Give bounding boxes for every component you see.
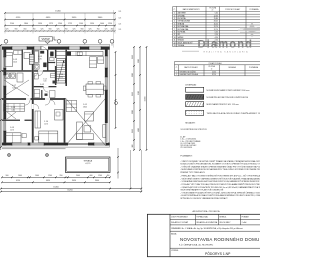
svg-text:IČO 40123456: IČO 40123456 <box>180 146 192 149</box>
room number labels <box>10 54 88 131</box>
svg-text:NOSNÉ MUROVANÉ STENY HRÚBKY 30: NOSNÉ MUROVANÉ STENY HRÚBKY 300 mm <box>207 89 250 92</box>
svg-text:S1 KONŠTRUKCIE STROPOV: S1 KONŠTRUKCIE STROPOV <box>181 128 208 131</box>
svg-text:12,70: 12,70 <box>44 123 48 125</box>
svg-text:1600: 1600 <box>18 175 22 177</box>
svg-text:525: 525 <box>41 29 44 31</box>
svg-text:- PREKLADY NAD OTVORMI SYSTÉMO: - PREKLADY NAD OTVORMI SYSTÉMOVÉ POROTHE… <box>180 175 260 178</box>
svg-text:12,70: 12,70 <box>214 29 218 31</box>
svg-text:525: 525 <box>89 29 92 31</box>
svg-text:- VÝŠKOVÉ OSADENIE STAVBY UPRE: - VÝŠKOVÉ OSADENIE STAVBY UPRESNÍ STAVEB… <box>180 165 260 168</box>
svg-text:ING.ARCH. A. KOVÁČOVÁ: ING.ARCH. A. KOVÁČOVÁ <box>197 221 219 224</box>
svg-text:525: 525 <box>105 29 108 31</box>
svg-text:ING.ARCH. P. KOVÁČ: ING.ARCH. P. KOVÁČ <box>171 221 189 224</box>
door swing arcs <box>25 71 50 109</box>
svg-text:525: 525 <box>6 29 9 31</box>
svg-text:PRESNÉ TYPY PREKLADOV: PRESNÉ TYPY PREKLADOV <box>180 171 205 174</box>
legend box insulation <box>186 110 266 115</box>
svg-text:28,45: 28,45 <box>83 106 87 108</box>
notes paragraph <box>180 154 270 199</box>
terrace sliding door bottom wall <box>68 142 88 145</box>
windows left wall <box>3 57 6 68</box>
dimension chain top overall <box>4 11 116 14</box>
svg-text:NÁZOV MIESTNOSTI: NÁZOV MIESTNOSTI <box>183 8 200 11</box>
svg-text:SPÔSOBILOU OSOBOU VRÁTANE REVÍ: SPÔSOBILOU OSOBOU VRÁTANE REVÍZNEJ SPRÁV… <box>180 197 228 200</box>
dimension chain right inner <box>115 51 118 129</box>
svg-text:28,45: 28,45 <box>214 21 218 23</box>
svg-text:4,20: 4,20 <box>11 109 14 111</box>
svg-text:TEPELNÁ IZOLÁCIA OBVODOVÉHO PL: TEPELNÁ IZOLÁCIA OBVODOVÉHO PLÁŠŤA HRÚBK… <box>207 112 261 115</box>
svg-text:1100: 1100 <box>79 23 83 25</box>
svg-text:Diamond: Diamond <box>198 39 254 51</box>
svg-text:1950: 1950 <box>90 23 94 25</box>
svg-text:87,20: 87,20 <box>212 74 216 76</box>
room schedule table <box>173 7 262 48</box>
svg-text:10: 10 <box>174 37 176 39</box>
svg-text:9: 9 <box>174 34 175 36</box>
svg-text:900: 900 <box>132 145 134 148</box>
svg-text:13: 13 <box>174 45 176 47</box>
svg-text:K.Ú. ČIERNA VODA, okr. HLOHOVE: K.Ú. ČIERNA VODA, okr. HLOHOVEC <box>179 244 214 247</box>
bathroom fixtures <box>34 50 47 69</box>
hall closet <box>29 54 34 65</box>
svg-text:1200: 1200 <box>58 23 62 25</box>
svg-text:1000: 1000 <box>100 23 104 25</box>
svg-text:STAVEBNÍK: Bc. J. SKALA a Bc.: STAVEBNÍK: Bc. J. SKALA a Bc. Ing. Sp. S… <box>171 227 243 230</box>
bedroom 2 furniture <box>35 110 63 143</box>
svg-text:900: 900 <box>81 29 84 31</box>
legend box concrete <box>186 95 249 100</box>
entrance label VSTUP <box>39 37 57 42</box>
svg-text:525: 525 <box>57 29 60 31</box>
living room furniture <box>66 101 105 140</box>
closet room shelving <box>4 104 25 120</box>
svg-text:- VYKUROVANIE PODLAHOVÉ TEPLOV: - VYKUROVANIE PODLAHOVÉ TEPLOVODNÉ, ZDRO… <box>180 191 260 194</box>
svg-text:900: 900 <box>15 29 18 31</box>
svg-text:- MUROVANÉ KONŠTRUKCIE SÚ NAVR: - MUROVANÉ KONŠTRUKCIE SÚ NAVRHNUTÉ Z TE… <box>180 168 260 171</box>
svg-text:2: 2 <box>174 15 175 17</box>
dimension chain bottom third <box>0 186 142 189</box>
windows bottom wall <box>12 142 28 145</box>
legend header <box>185 83 196 86</box>
dimension chain bottom fourth <box>0 148 142 192</box>
svg-text:8: 8 <box>174 32 175 34</box>
svg-text:2100: 2100 <box>10 23 14 25</box>
svg-text:650: 650 <box>24 29 27 31</box>
kitchen counter and appliances <box>56 51 103 68</box>
svg-text:6,35: 6,35 <box>215 32 218 34</box>
svg-text:8,40: 8,40 <box>43 81 46 83</box>
svg-text:4000: 4000 <box>138 128 140 132</box>
svg-text:2,10: 2,10 <box>50 56 53 58</box>
svg-text:- VNÚTORNÉ OMIETKY VÁPENNOCEME: - VNÚTORNÉ OMIETKY VÁPENNOCEMENTOVÉ ŠTUK… <box>180 178 260 181</box>
svg-text:900: 900 <box>49 29 52 31</box>
svg-text:1950: 1950 <box>132 129 134 133</box>
windows top wall <box>12 46 27 50</box>
porch overhang and columns <box>2 149 66 157</box>
svg-text:ING. M. BIELY: ING. M. BIELY <box>220 222 232 224</box>
svg-text:1: 1 <box>176 71 177 73</box>
svg-text:- VONKAJŠIA OMIETKA SILIKÁTOVÁ: - VONKAJŠIA OMIETKA SILIKÁTOVÁ TENKOVRST… <box>180 180 260 183</box>
svg-text:1: 1 <box>174 13 175 15</box>
dimension chain right second <box>138 46 141 151</box>
Diamond watermark logo <box>182 22 262 54</box>
dimension chain left <box>0 44 2 150</box>
svg-text:VNÚTORNÉ PARAPETY PLASTOVÉ KOM: VNÚTORNÉ PARAPETY PLASTOVÉ KOMôRKOVÉ <box>180 189 224 192</box>
svg-text:TERASA: TERASA <box>83 159 92 162</box>
svg-text:12,35: 12,35 <box>214 15 218 17</box>
svg-text:KONZULTOVAŤ S PROJEKTANTOM, RO: KONZULTOVAŤ S PROJEKTANTOM, ROZMERY OTVO… <box>180 163 260 166</box>
svg-text:2800: 2800 <box>138 59 140 63</box>
bedroom 1 bed <box>5 133 27 143</box>
svg-text:1250: 1250 <box>108 23 112 25</box>
svg-text:1950: 1950 <box>132 92 134 96</box>
svg-text:1400: 1400 <box>35 175 39 177</box>
wc fixtures <box>50 52 55 61</box>
svg-text:750: 750 <box>97 29 100 31</box>
staircase <box>57 59 66 84</box>
svg-text:15450: 15450 <box>53 186 58 188</box>
svg-text:SKLADBY:: SKLADBY: <box>185 122 195 125</box>
svg-text:11: 11 <box>174 40 176 42</box>
svg-text:5,60: 5,60 <box>215 13 218 15</box>
svg-text:ZODP. PROJEKTANT: ZODP. PROJEKTANT <box>171 216 187 219</box>
svg-text:6,80: 6,80 <box>12 87 15 89</box>
svg-text:NOVOSTAVBA RODINNÉHO DOMU: NOVOSTAVBA RODINNÉHO DOMU <box>180 237 260 242</box>
svg-text:12,70: 12,70 <box>10 129 14 131</box>
svg-text:ARCHITEKTÚRA - PROJEKCIA: ARCHITEKTÚRA - PROJEKCIA <box>193 210 221 213</box>
svg-text:15450: 15450 <box>55 11 61 13</box>
dimension chain top fourth <box>4 10 121 48</box>
svg-text:4650: 4650 <box>46 180 50 182</box>
svg-text:6: 6 <box>174 26 175 28</box>
svg-text:3600: 3600 <box>95 180 99 182</box>
interior walls <box>2 50 67 143</box>
svg-text:3: 3 <box>174 18 175 20</box>
svg-text:16250: 16250 <box>67 189 72 191</box>
svg-text:- VŠETKY ROZMERY JE NUTNÉ OVER: - VŠETKY ROZMERY JE NUTNÉ OVERIŤ PRIAMO … <box>180 160 260 163</box>
legend box masonry <box>186 87 250 92</box>
dimension chain right third <box>145 46 148 151</box>
svg-text:525: 525 <box>73 29 76 31</box>
terrace <box>66 157 111 173</box>
svg-text:16,20: 16,20 <box>214 23 218 25</box>
svg-text:450: 450 <box>111 29 114 31</box>
svg-text:10300: 10300 <box>145 97 147 102</box>
svg-text:POZNÁMKY:: POZNÁMKY: <box>180 154 193 157</box>
dimension chain bottom first <box>1 175 111 178</box>
svg-text:1800: 1800 <box>132 110 134 114</box>
windows right wall <box>105 56 108 68</box>
svg-text:7: 7 <box>174 29 175 31</box>
svg-text:12,70: 12,70 <box>214 26 218 28</box>
building outline <box>2 45 110 148</box>
legend box partitions <box>186 102 240 107</box>
axis marker bubbles <box>4 39 114 45</box>
dimension chain bottom second <box>1 180 111 183</box>
svg-text:FORMÁT: FORMÁT <box>242 216 249 219</box>
svg-text:VÝKAZ PODLÁH: VÝKAZ PODLÁH <box>209 62 223 65</box>
svg-text:16,20: 16,20 <box>13 61 17 63</box>
svg-text:VSTUP: VSTUP <box>42 38 51 41</box>
exterior walls <box>2 45 110 148</box>
svg-text:PÔDORYS 1.NP: PÔDORYS 1.NP <box>205 251 231 256</box>
svg-text:MUROVANÉ PRIEČKY HR. 115 mm: MUROVANÉ PRIEČKY HR. 115 mm <box>207 103 240 106</box>
svg-text:15,80: 15,80 <box>59 76 63 78</box>
hall detail cluster <box>34 72 57 105</box>
dimension chain top third <box>4 23 116 26</box>
svg-text:3500: 3500 <box>138 91 140 95</box>
dimension chain right first <box>132 46 135 151</box>
structure note <box>181 122 208 131</box>
studio line <box>193 210 221 213</box>
svg-text:-0,170: -0,170 <box>85 163 90 165</box>
svg-text:4: 4 <box>174 21 175 23</box>
svg-text:3050: 3050 <box>72 180 76 182</box>
svg-text:45,60: 45,60 <box>212 71 216 73</box>
svg-text:1800: 1800 <box>24 23 28 25</box>
svg-text:750: 750 <box>65 29 68 31</box>
svg-text:2 x A4: 2 x A4 <box>242 221 247 224</box>
title block <box>147 214 262 256</box>
svg-text:1200: 1200 <box>48 175 52 177</box>
svg-text:AKCIA:: AKCIA: <box>171 232 177 235</box>
svg-text:12: 12 <box>174 42 176 44</box>
svg-text:1800: 1800 <box>132 73 134 77</box>
svg-text:- PODLAHY VIĎ VÝKAZ PODLÁH, PR: - PODLAHY VIĎ VÝKAZ PODLÁH, PRECHODY MED… <box>180 183 260 186</box>
svg-text:125: 125 <box>119 29 122 31</box>
svg-text:900: 900 <box>6 175 9 177</box>
svg-text:VYPRACOVAL: VYPRACOVAL <box>197 216 208 219</box>
svg-text:950: 950 <box>60 175 63 177</box>
svg-text:1275: 1275 <box>49 23 53 25</box>
svg-text:4150: 4150 <box>16 180 20 182</box>
svg-text:125: 125 <box>119 11 122 13</box>
svg-text:LEGENDA:: LEGENDA: <box>185 83 196 86</box>
svg-text:REALITNÁ KANCELÁRIA: REALITNÁ KANCELÁRIA <box>204 50 249 53</box>
glass door right wall <box>105 123 108 143</box>
entrance door top wall <box>41 46 48 50</box>
room top-left furniture <box>5 51 31 67</box>
living room ceiling diagonals <box>66 98 106 145</box>
designer address block <box>180 136 201 149</box>
floor schedule table <box>175 62 263 77</box>
svg-text:600: 600 <box>90 175 93 177</box>
svg-text:1950: 1950 <box>38 23 42 25</box>
svg-text:1.04: 1.04 <box>43 79 47 81</box>
svg-text:2,10: 2,10 <box>215 34 218 36</box>
svg-text:5: 5 <box>174 23 175 25</box>
svg-text:400: 400 <box>107 175 110 177</box>
dimension chain top second <box>4 17 116 20</box>
utility room fixtures <box>4 73 29 96</box>
svg-text:2000: 2000 <box>76 175 80 177</box>
svg-text:2: 2 <box>176 74 177 76</box>
svg-text:125: 125 <box>119 18 122 20</box>
svg-text:6,35: 6,35 <box>38 58 41 60</box>
svg-text:1950: 1950 <box>132 55 134 59</box>
svg-text:- OKNÁ PLASTOVÉ S IZOLAČNÝM TR: - OKNÁ PLASTOVÉ S IZOLAČNÝM TROJSKLOM, U… <box>180 186 260 189</box>
svg-text:KRESLIL: KRESLIL <box>220 217 227 219</box>
svg-text:1725: 1725 <box>68 23 72 25</box>
svg-text:NOSNÉ ŽELEZOBETÓNOVÉ KONŠTRUKC: NOSNÉ ŽELEZOBETÓNOVÉ KONŠTRUKCIE <box>207 96 249 99</box>
svg-text:125: 125 <box>119 24 122 26</box>
svg-text:VÝKRES:: VÝKRES: <box>171 249 179 252</box>
dining table and chairs <box>83 82 106 98</box>
svg-text:15,80: 15,80 <box>214 18 218 20</box>
svg-text:- ELEKTROINŠTALÁCIU REALIZOVAŤ: - ELEKTROINŠTALÁCIU REALIZOVAŤ PODĽA SAM… <box>180 194 260 197</box>
svg-text:1200: 1200 <box>98 175 102 177</box>
